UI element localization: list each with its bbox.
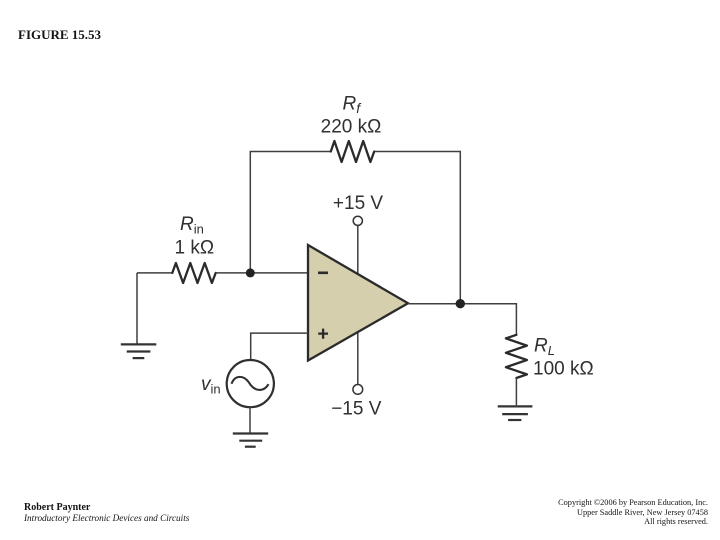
source vin circle [227, 360, 274, 407]
node dot output junction [456, 299, 465, 308]
figure caption FIGURE 15.53 [18, 27, 101, 43]
wire RL bottom to ground [515, 378, 517, 405]
source vin sine wave [232, 377, 269, 390]
wire output from op-amp to RL top [408, 304, 516, 335]
terminal +15V circle [353, 216, 362, 225]
ground symbol (input) [121, 344, 157, 358]
wire vin to ground [249, 407, 251, 433]
svg-text:vin: vin [201, 374, 221, 397]
svg-text:Rf: Rf [343, 94, 363, 117]
svg-text:220 kΩ: 220 kΩ [321, 117, 382, 138]
ground symbol (RL) [498, 406, 533, 420]
wire vin to non-inverting input [251, 333, 308, 360]
svg-text:Rin: Rin [180, 214, 204, 237]
wire input ground drop [136, 273, 138, 344]
credit book title [24, 513, 189, 523]
inverting input minus marker [318, 271, 328, 274]
terminal -15V circle [353, 385, 363, 395]
wire power rail vertical (+15V to -15V behind op-amp) [357, 225, 359, 384]
wire feedback-loop right (Rf right, down to output node) [374, 152, 460, 304]
wire input right lead to op-amp inverting input [216, 272, 308, 274]
svg-text:1 kΩ: 1 kΩ [175, 238, 215, 259]
resistor Rin zigzag [172, 263, 215, 283]
ground symbol (vin) [233, 434, 268, 447]
resistor RL zigzag [506, 335, 527, 378]
svg-text:−15 V: −15 V [331, 399, 382, 420]
node dot inverting-input junction [246, 268, 255, 277]
wire input left lead [137, 272, 172, 274]
op-amp U1 triangle [308, 245, 408, 361]
non-inverting input plus marker [318, 329, 328, 339]
svg-text:RL: RL [534, 336, 555, 359]
svg-text:100 kΩ: 100 kΩ [533, 359, 594, 380]
credit author Robert Paynter [24, 502, 90, 513]
copyright block [558, 498, 708, 527]
svg-text:+15 V: +15 V [333, 193, 384, 214]
wire feedback-loop left (node A up and right to Rf) [250, 152, 331, 273]
resistor Rf zigzag [331, 141, 374, 162]
